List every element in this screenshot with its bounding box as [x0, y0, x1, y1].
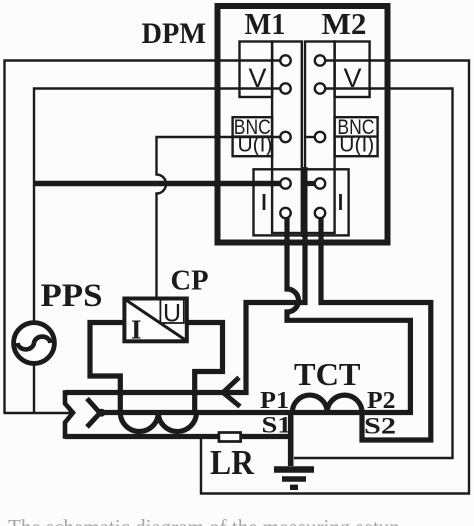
svg-text:The schematic diagram of the m: The schematic diagram of the measuring s… [8, 515, 400, 526]
svg-text:M2: M2 [322, 6, 367, 41]
CP box [124, 299, 186, 342]
svg-text:I: I [131, 315, 142, 345]
M1 BNC box [233, 117, 273, 156]
wire M1 V- to PPS+ [34, 89, 280, 323]
wire M2 I+ (B) down to bus [65, 230, 305, 393]
ground symbol [274, 470, 314, 488]
svg-text:V: V [249, 63, 267, 93]
svg-text:U(I): U(I) [238, 134, 273, 157]
I label bars [263, 194, 266, 210]
wire M2 BNC stub [305, 136, 315, 138]
svg-text:DPM: DPM [142, 17, 207, 50]
svg-text:CP: CP [171, 265, 209, 297]
TCT primary winding humps [292, 395, 362, 412]
CP loop right leg [187, 323, 223, 413]
CP loop left leg [90, 323, 124, 413]
M2 terminal column [305, 42, 335, 234]
terminal circles [280, 55, 325, 218]
DPM outer box [218, 6, 388, 243]
svg-text:S2: S2 [364, 414, 396, 439]
wire M2 I+ stub to bar [307, 181, 315, 186]
junction dot at primary line start [98, 409, 106, 417]
wire M1 BNC U(I) to CP U output [157, 137, 281, 297]
wire M2 V+ right edge to bottom [201, 61, 469, 494]
arrow into primary line [87, 399, 100, 428]
svg-text:P1: P1 [260, 388, 289, 414]
wire M2 I- (C) down right side to S2 [321, 218, 431, 440]
PPS source circle with sine [14, 323, 55, 364]
resistor LR [219, 433, 241, 442]
wire M1 I- (A) down with hop to P2 riser [287, 218, 410, 413]
CP diagonal [125, 299, 187, 341]
wire S1 drop to ground [288, 410, 294, 466]
wire M2 V- right edge to S1 ground node [294, 89, 453, 459]
svg-text:U(I): U(I) [339, 134, 374, 157]
wire M1 I+ thick to PPS node [34, 181, 281, 187]
wire TCT primary line [100, 410, 413, 415]
svg-text:V: V [344, 63, 362, 93]
M1 terminal column [272, 42, 302, 234]
CP U box [160, 300, 183, 323]
thick common bar between I inputs [301, 167, 307, 237]
svg-text:LR: LR [210, 443, 255, 482]
wire M1 V+ to PPS- left edge [5, 61, 281, 414]
I terminals outer box [254, 169, 349, 235]
svg-text:M1: M1 [245, 6, 286, 41]
svg-text:S1: S1 [262, 413, 292, 438]
svg-text:PPS: PPS [41, 278, 103, 314]
M1 V label box [240, 42, 273, 98]
svg-text:U: U [163, 300, 181, 328]
svg-text:TCT: TCT [294, 356, 361, 392]
arrowhead on bus pointing left [223, 378, 240, 407]
M2 BNC box [335, 117, 378, 156]
wire PPS to bus connector [4, 412, 73, 414]
svg-text:P2: P2 [367, 388, 396, 414]
wire PPS bottom terminal [33, 364, 35, 414]
connector chevron at bus left end [65, 390, 73, 439]
M2 V label box [335, 42, 370, 98]
wire bus bottom through LR to S1 [65, 434, 288, 439]
CP threading cups below line [120, 413, 196, 432]
